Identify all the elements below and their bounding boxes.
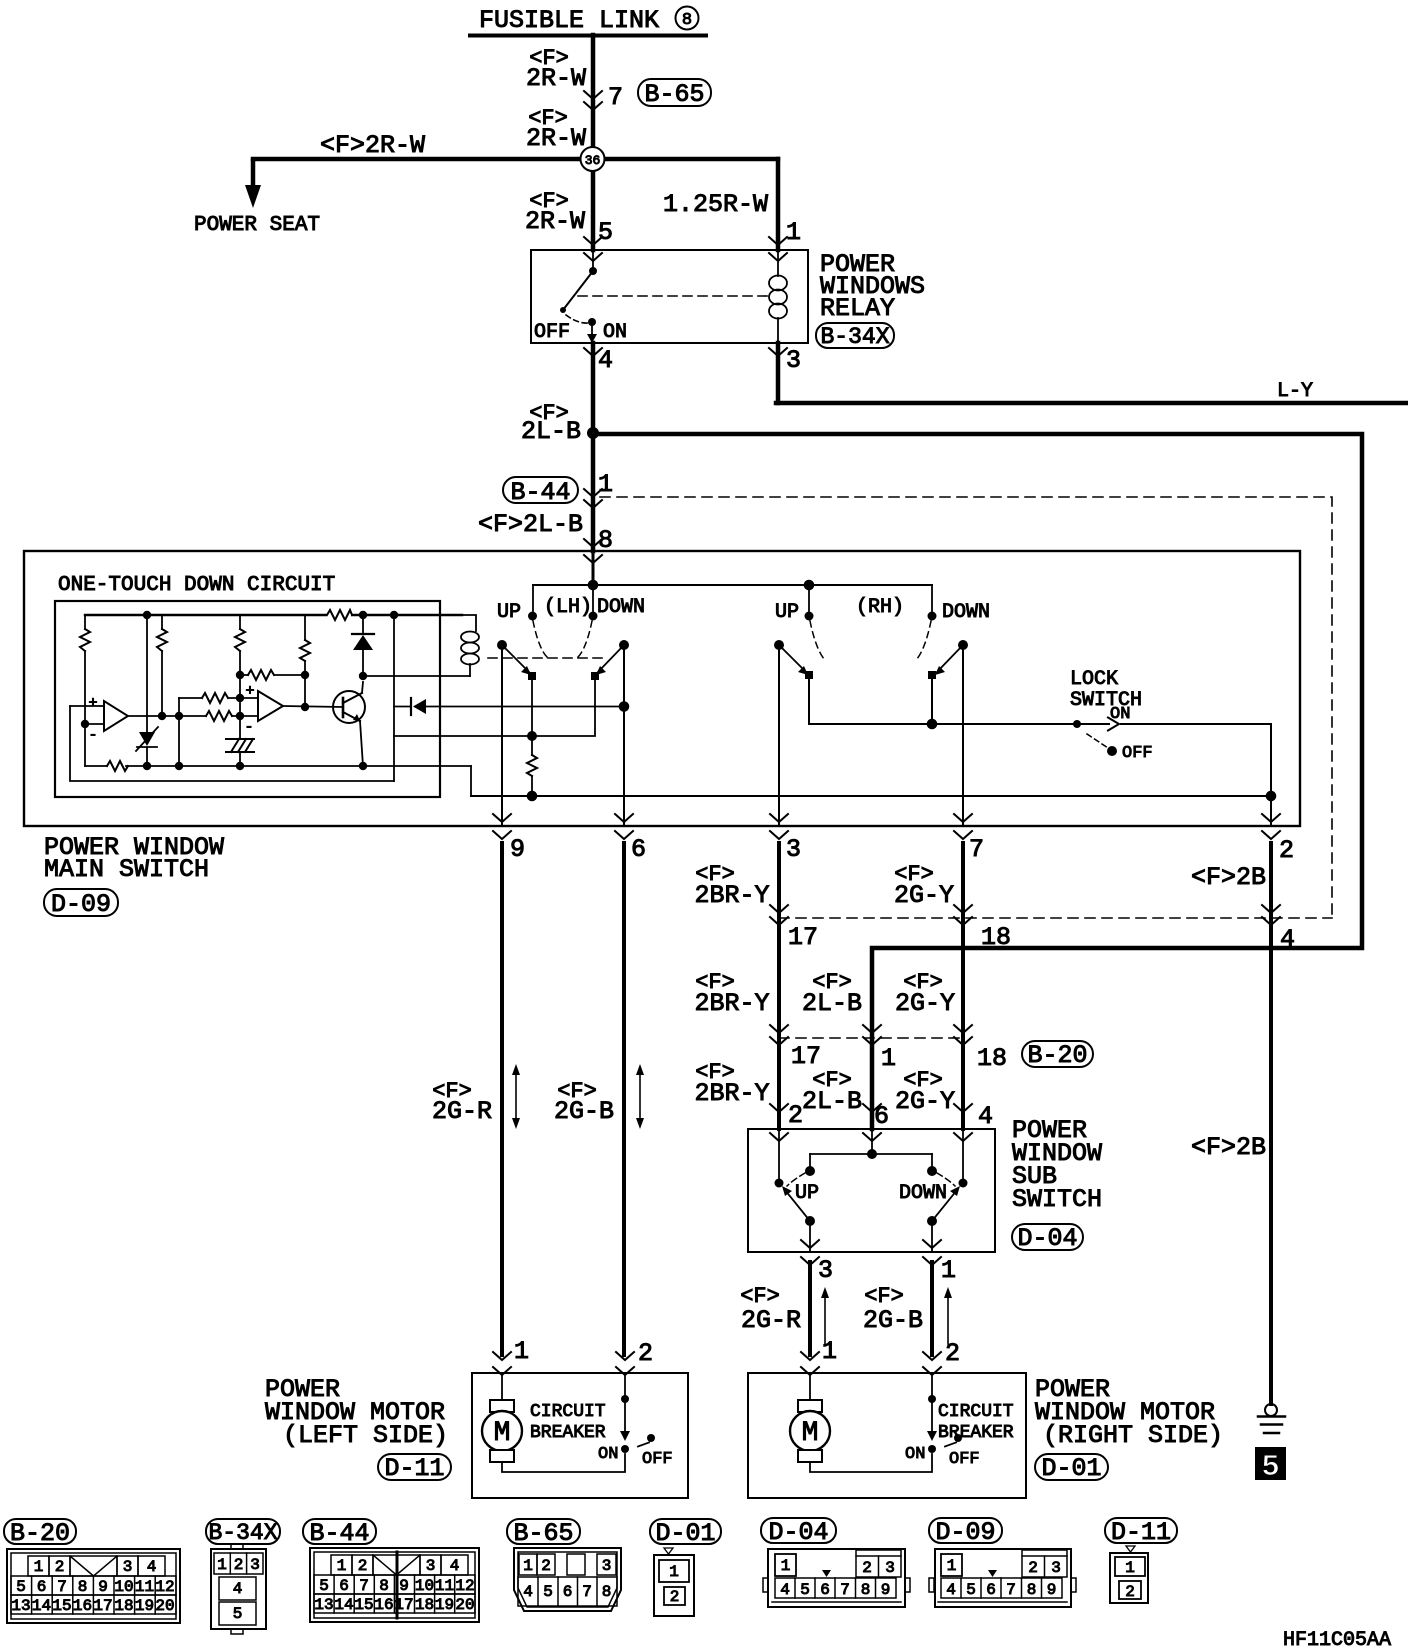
right motor box D-01 (748, 1373, 1026, 1498)
wire U2 output (283, 706, 343, 707)
resistor R-i bottom bus (107, 761, 128, 771)
svg-text:ONE-TOUCH DOWN CIRCUIT: ONE-TOUCH DOWN CIRCUIT (58, 574, 335, 597)
RH dashed arcs (810, 621, 931, 660)
power seat branch wire (245, 161, 261, 208)
wire sub to right motor 2 (930, 1262, 934, 1355)
svg-text:17: 17 (788, 923, 818, 952)
svg-text:+: + (88, 695, 97, 712)
svg-text:1: 1 (786, 218, 801, 247)
svg-text:4: 4 (147, 1558, 157, 1576)
label F 2G-Y row3 (895, 1068, 955, 1116)
lock switch OFF blade (1087, 734, 1117, 756)
wire step to ground bus (470, 766, 472, 796)
svg-text:B-65: B-65 (644, 80, 704, 109)
LH down contact (589, 585, 598, 621)
chevrons sub pin 2 (770, 1104, 788, 1141)
svg-text:6: 6 (37, 1578, 47, 1596)
hatched element x240 (226, 739, 254, 752)
connector label B-20 (1022, 1041, 1093, 1070)
svg-text:2: 2 (358, 1557, 368, 1575)
label F 2R-W upper (526, 46, 586, 93)
chevrons left motor pin1 (493, 1352, 511, 1375)
svg-text:3: 3 (1051, 1559, 1061, 1577)
svg-text:17: 17 (93, 1597, 112, 1615)
chevrons pin 18 (954, 905, 972, 925)
relay coil (769, 250, 787, 343)
svg-text:MAIN SWITCH: MAIN SWITCH (44, 855, 209, 884)
svg-text:7: 7 (840, 1581, 850, 1599)
svg-text:D-11: D-11 (384, 1454, 444, 1483)
chevrons pin 1 entry (769, 237, 787, 261)
svg-text:M: M (494, 1418, 511, 1449)
svg-text:3: 3 (602, 1557, 612, 1575)
svg-text:OFF: OFF (1122, 744, 1153, 763)
wire RH blades to lock bus (809, 675, 937, 729)
svg-text:7: 7 (608, 83, 623, 112)
svg-text:1: 1 (669, 1563, 679, 1581)
node RH bus (804, 580, 815, 591)
svg-text:2G-R: 2G-R (741, 1306, 801, 1335)
wire L-Y (776, 343, 1408, 403)
svg-text:<F>2R-W: <F>2R-W (320, 131, 425, 160)
wire pin1 drop (776, 159, 781, 250)
svg-text:2: 2 (1279, 836, 1294, 865)
wire RH down common down (962, 645, 964, 826)
svg-text:14: 14 (32, 1597, 51, 1615)
svg-text:18: 18 (981, 923, 1011, 952)
svg-text:D-09: D-09 (51, 890, 111, 919)
svg-text:SWITCH: SWITCH (1070, 689, 1142, 712)
wire RH up common down (778, 645, 780, 826)
relay box B-34X (531, 250, 808, 343)
wire diode line to LH down (394, 698, 629, 715)
svg-text:16: 16 (73, 1597, 92, 1615)
wire horizontal to power seat (253, 157, 778, 162)
wire x179 vertical (175, 698, 183, 770)
svg-text:B-20: B-20 (1027, 1041, 1087, 1070)
wire sub outputs (810, 1221, 932, 1252)
label F 2BR-Y row1 (694, 862, 769, 910)
svg-text:2L-B: 2L-B (802, 1087, 862, 1116)
svg-text:4: 4 (1280, 925, 1295, 954)
op-amp U1 (70, 695, 128, 744)
main switch name label (44, 833, 224, 884)
arrow up right2 (944, 1287, 952, 1344)
label F 2L-B (521, 401, 581, 446)
svg-text:-: - (88, 727, 97, 744)
svg-text:3: 3 (123, 1558, 133, 1576)
wire line to LH up node (394, 735, 532, 737)
svg-text:9: 9 (510, 835, 525, 864)
svg-text:6: 6 (874, 1102, 889, 1131)
circuit breaker left (620, 1375, 655, 1453)
wire one-touch bottom bus (85, 765, 471, 767)
chevrons pin 18 B-20 (954, 1025, 972, 1045)
op-amp U2 (244, 683, 283, 736)
svg-text:7: 7 (1006, 1581, 1016, 1599)
resistor R-f top bus series (327, 610, 352, 620)
LH switch blades (497, 640, 629, 680)
sub dashed arcs (787, 1173, 955, 1186)
svg-text:2: 2 (541, 1557, 551, 1575)
circuit breaker right (927, 1375, 962, 1453)
dashed B-20 boundary (779, 1037, 963, 1039)
node 2L-B junction (587, 427, 599, 439)
wire feedback row (240, 674, 248, 676)
label F 2L-B row2 (802, 970, 862, 1018)
svg-text:D-11: D-11 (1111, 1518, 1171, 1547)
sub switch name label (1012, 1116, 1102, 1214)
svg-text:7: 7 (582, 1583, 592, 1601)
svg-text:D-04: D-04 (1017, 1224, 1077, 1253)
svg-text:ON: ON (603, 321, 627, 344)
svg-text:15: 15 (52, 1597, 71, 1615)
connector D-04 pinout (761, 1518, 910, 1607)
svg-text:8: 8 (861, 1581, 871, 1599)
chevrons pin 4 ground (1262, 905, 1280, 925)
svg-text:5: 5 (319, 1577, 329, 1595)
resistor R-a left vertical (80, 615, 90, 766)
chevrons pin 5 entry (584, 237, 602, 261)
diode D1 x363 (352, 611, 374, 680)
svg-text:2: 2 (1028, 1559, 1038, 1577)
wire coil return (363, 675, 470, 677)
wire 2G-Y (961, 843, 965, 1129)
svg-text:1: 1 (217, 1556, 227, 1574)
svg-text:5: 5 (800, 1581, 810, 1599)
sub switch box D-04 (748, 1129, 995, 1252)
svg-text:2BR-Y: 2BR-Y (694, 989, 769, 1018)
svg-text:2L-B: 2L-B (521, 417, 581, 446)
svg-text:4: 4 (946, 1581, 956, 1599)
wire ground bus long (471, 795, 1271, 797)
svg-text:(RH): (RH) (856, 596, 904, 619)
svg-text:1: 1 (1125, 1559, 1135, 1577)
resistor R-e feedback horizontal (248, 670, 274, 680)
dashed B-44 return boundary (779, 917, 1332, 919)
svg-text:4: 4 (450, 1557, 460, 1575)
motor M left (482, 1375, 522, 1462)
lock switch ON arrow (1108, 718, 1119, 731)
svg-text:ON: ON (905, 1445, 925, 1464)
arrow up right1 (821, 1287, 829, 1344)
dashed B-44 boundary (600, 497, 1332, 918)
label circuit breaker left (530, 1402, 606, 1443)
svg-text:6: 6 (986, 1581, 996, 1599)
chevrons B-44 crossing (584, 489, 602, 508)
ground symbol (1258, 1404, 1285, 1433)
chevrons sub pin 6 (863, 1104, 881, 1141)
wire branch x147 with zener (143, 611, 151, 770)
svg-text:2: 2 (862, 1559, 872, 1577)
svg-text:2G-Y: 2G-Y (894, 881, 954, 910)
wire left motor bottom (502, 1454, 625, 1472)
resistor R-b x162 (157, 615, 167, 720)
wire LH blade links (527, 676, 595, 741)
svg-text:7: 7 (969, 835, 984, 864)
wire switch top bus (533, 584, 932, 586)
main switch box D-09 (24, 551, 1300, 826)
wire feedback bottom (70, 706, 394, 781)
connector D-01 pinout (650, 1519, 721, 1616)
connector B-34X pinout (206, 1519, 280, 1634)
svg-text:2R-W: 2R-W (526, 124, 586, 153)
svg-text:2: 2 (788, 1101, 803, 1130)
svg-text:3: 3 (885, 1559, 895, 1577)
svg-text:1: 1 (337, 1557, 347, 1575)
svg-text:3: 3 (818, 1256, 833, 1285)
chevrons pin 17 (770, 905, 788, 925)
svg-text:-: - (244, 719, 253, 736)
svg-text:OFF: OFF (949, 1450, 980, 1469)
svg-text:B-65: B-65 (513, 1519, 573, 1548)
svg-text:12: 12 (155, 1578, 174, 1596)
svg-text:7: 7 (57, 1578, 67, 1596)
svg-text:RELAY: RELAY (820, 294, 895, 323)
svg-text:B-34X: B-34X (208, 1520, 277, 1546)
node 36 junction circle (581, 147, 605, 171)
svg-text:UP: UP (795, 1182, 819, 1205)
wire sub pin drops (775, 1129, 968, 1188)
svg-text:FUSIBLE LINK: FUSIBLE LINK (479, 6, 659, 35)
chevrons pin 17 B-20 (770, 1025, 788, 1045)
right motor name label (1035, 1375, 1223, 1450)
svg-text:1: 1 (598, 470, 613, 499)
svg-text:2BR-Y: 2BR-Y (694, 881, 769, 910)
label F 2G-Y row1 (894, 862, 954, 910)
RH down contact (928, 585, 937, 621)
svg-text:8: 8 (682, 11, 692, 30)
svg-text:2G-B: 2G-B (863, 1306, 923, 1335)
LH dashed arcs (533, 621, 592, 658)
chevrons sub pin 3 exit (801, 1240, 819, 1265)
svg-text:6: 6 (563, 1583, 573, 1601)
svg-text:<F>2B: <F>2B (1191, 1133, 1266, 1162)
RH up contact (805, 585, 814, 621)
chevrons pin 9 exit (493, 814, 511, 839)
connector label B-65 (638, 79, 711, 109)
chevrons sub pin 1 exit (923, 1240, 941, 1265)
label F 2L-B row3 (802, 1068, 862, 1116)
svg-text:5: 5 (1261, 1450, 1280, 1485)
chevron pin 4 exit (584, 348, 602, 356)
svg-text:SWITCH: SWITCH (1012, 1185, 1102, 1214)
connector B-44 pinout (303, 1519, 479, 1622)
svg-text:2G-B: 2G-B (554, 1097, 614, 1126)
wire lock bus (809, 720, 1271, 728)
svg-text:1: 1 (514, 1337, 529, 1366)
chevrons pin 2 exit (1262, 814, 1280, 839)
svg-text:1: 1 (34, 1558, 44, 1576)
svg-text:1: 1 (523, 1557, 533, 1575)
left motor name label (265, 1375, 448, 1450)
svg-text:6: 6 (820, 1581, 830, 1599)
svg-text:(RIGHT SIDE): (RIGHT SIDE) (1043, 1421, 1223, 1450)
svg-text:1: 1 (941, 1256, 956, 1285)
chevron pin 3 exit (769, 348, 787, 356)
fusible link label (470, 6, 706, 36)
svg-text:13: 13 (314, 1596, 333, 1614)
resistor R-g to U2 plus (179, 693, 258, 703)
label LOCK SWITCH (1070, 668, 1142, 712)
connector label D-11 left (378, 1454, 451, 1483)
svg-text:9: 9 (399, 1577, 409, 1595)
svg-text:OFF: OFF (642, 1450, 673, 1469)
connector chevrons pin 7 B-65 (584, 91, 602, 110)
svg-text:B-34X: B-34X (820, 324, 889, 350)
svg-text:1: 1 (947, 1557, 957, 1575)
wire sub feed (805, 1129, 937, 1176)
svg-text:B-44: B-44 (309, 1519, 369, 1548)
svg-text:1: 1 (822, 1337, 837, 1366)
wire 2BR-Y (777, 843, 781, 1129)
chevrons pin 7 exit (954, 814, 972, 839)
svg-text:15: 15 (354, 1596, 373, 1614)
arrow updown left2 (636, 1064, 644, 1129)
svg-text:11: 11 (135, 1578, 154, 1596)
svg-text:BREAKER: BREAKER (530, 1423, 606, 1443)
svg-text:<F>2L-B: <F>2L-B (478, 510, 583, 539)
transistor Q1 (333, 691, 365, 723)
connector label B-34X (816, 323, 894, 350)
ground number 5 (1255, 1447, 1286, 1485)
svg-text:10: 10 (415, 1577, 434, 1595)
svg-text:UP: UP (775, 601, 799, 624)
svg-text:1: 1 (881, 1044, 896, 1073)
label F 2R-W third (525, 189, 585, 236)
svg-text:4: 4 (978, 1102, 993, 1131)
wire pin8 inside (588, 551, 599, 590)
svg-text:18: 18 (114, 1597, 133, 1615)
svg-text:OFF: OFF (534, 321, 570, 344)
svg-text:18: 18 (415, 1596, 434, 1614)
svg-text:1.25R-W: 1.25R-W (663, 190, 768, 219)
svg-text:4: 4 (233, 1580, 243, 1598)
svg-text:HF11C05AA: HF11C05AA (1283, 1629, 1391, 1650)
svg-text:10: 10 (114, 1578, 133, 1596)
svg-text:6: 6 (631, 835, 646, 864)
svg-text:8: 8 (602, 1583, 612, 1601)
svg-text:2: 2 (670, 1588, 680, 1606)
arrow updown left1 (512, 1064, 520, 1129)
svg-text:ON: ON (1110, 705, 1130, 724)
wire U1 output (128, 712, 206, 720)
connector label D-01 right (1035, 1454, 1108, 1483)
svg-text:DOWN: DOWN (942, 601, 990, 624)
svg-text:<F>2B: <F>2B (1191, 863, 1266, 892)
wire main feed vertical (591, 35, 596, 250)
svg-text:2: 2 (945, 1339, 960, 1368)
svg-text:2R-W: 2R-W (526, 64, 586, 93)
chevrons left motor pin2 (616, 1352, 634, 1375)
svg-text:17: 17 (791, 1042, 821, 1071)
svg-text:4: 4 (780, 1581, 790, 1599)
connector label D-04 (1012, 1224, 1083, 1253)
svg-text:2L-B: 2L-B (802, 989, 862, 1018)
svg-text:11: 11 (435, 1577, 454, 1595)
wire one-touch top bus (85, 614, 462, 616)
svg-text:5: 5 (966, 1581, 976, 1599)
label F 2G-Y row2 (895, 970, 955, 1018)
svg-text:5: 5 (598, 218, 613, 247)
relay switch (560, 250, 597, 343)
connector label D-09 (44, 889, 118, 919)
label F 2BR-Y row2 (694, 970, 769, 1018)
svg-text:L-Y: L-Y (1277, 380, 1313, 403)
svg-text:2: 2 (638, 1339, 653, 1368)
relay name label (820, 250, 925, 323)
connector D-11 pinout (1105, 1518, 1177, 1603)
connector label B-44 (503, 477, 578, 507)
wire 2G-B left motor (622, 843, 626, 1355)
svg-text:4: 4 (523, 1583, 533, 1601)
svg-text:BREAKER: BREAKER (938, 1423, 1014, 1443)
zener diode (136, 727, 158, 751)
label F 2G-B right (863, 1284, 923, 1335)
svg-text:9: 9 (98, 1578, 108, 1596)
svg-text:16: 16 (374, 1596, 393, 1614)
svg-text:20: 20 (455, 1596, 474, 1614)
svg-text:(LEFT SIDE): (LEFT SIDE) (283, 1421, 448, 1450)
resistor R-d x305 (300, 615, 310, 711)
svg-text:2R-W: 2R-W (525, 207, 585, 236)
svg-text:20: 20 (155, 1597, 174, 1615)
connector B-65 pinout (507, 1519, 621, 1611)
svg-text:D-01: D-01 (655, 1519, 715, 1548)
svg-text:DOWN: DOWN (597, 596, 645, 619)
resistor R-c x240 (235, 615, 245, 770)
label circuit breaker right (938, 1402, 1014, 1443)
svg-text:8: 8 (78, 1578, 88, 1596)
svg-text:DOWN: DOWN (899, 1182, 947, 1205)
svg-text:CIRCUIT: CIRCUIT (938, 1402, 1014, 1422)
label F 2G-B left (554, 1079, 614, 1126)
svg-text:ON: ON (598, 1445, 618, 1464)
svg-text:2BR-Y: 2BR-Y (694, 1079, 769, 1108)
svg-text:5: 5 (16, 1578, 26, 1596)
svg-text:7: 7 (359, 1577, 369, 1595)
svg-text:3: 3 (786, 835, 801, 864)
svg-text:3: 3 (250, 1556, 260, 1574)
svg-text:2G-Y: 2G-Y (895, 989, 955, 1018)
svg-text:14: 14 (334, 1596, 353, 1614)
svg-text:B-44: B-44 (510, 478, 570, 507)
svg-text:3: 3 (786, 346, 801, 375)
svg-text:D-04: D-04 (768, 1518, 828, 1547)
resistor R-j LH (527, 736, 538, 801)
svg-text:9: 9 (1047, 1581, 1057, 1599)
svg-text:19: 19 (435, 1596, 454, 1614)
left motor box D-11 (472, 1373, 688, 1498)
one-touch relay coil (461, 615, 479, 676)
svg-text:2: 2 (1125, 1583, 1135, 1601)
wire pin4 down (591, 343, 596, 551)
svg-text:3: 3 (426, 1557, 436, 1575)
svg-text:8: 8 (1027, 1581, 1037, 1599)
label F 2R-W second (526, 106, 586, 153)
svg-text:B-20: B-20 (10, 1519, 70, 1548)
chevrons pin 6 exit (615, 814, 633, 839)
wire lock to ground bus (1266, 724, 1277, 826)
label F 2BR-Y row3 (694, 1060, 769, 1108)
svg-text:13: 13 (11, 1597, 30, 1615)
chevrons right motor pin2 (923, 1352, 941, 1375)
svg-text:5: 5 (233, 1605, 243, 1623)
chevrons pin 8 entry (584, 539, 602, 563)
label F 2G-R right (740, 1284, 801, 1335)
chevrons sub pin 4 (954, 1104, 972, 1141)
svg-text:LOCK: LOCK (1070, 668, 1118, 691)
